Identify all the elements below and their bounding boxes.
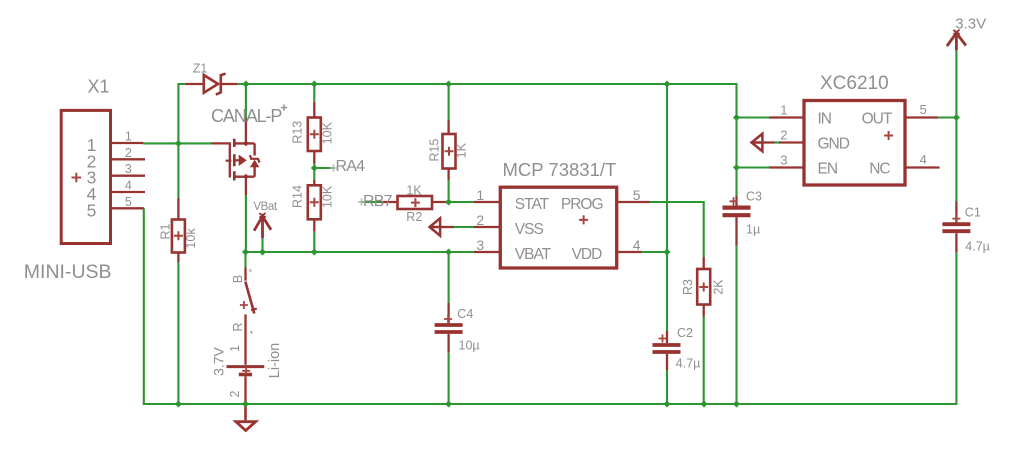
connector X1 pin stubs 1-5: [111, 143, 146, 208]
svg-text:RA4: RA4: [336, 158, 366, 175]
resistor R1 body: [172, 220, 185, 253]
transistor Q1 channel segments: [233, 139, 236, 181]
wire VBUS vertical from X1 pin1 junction up to Z1 anode: [178, 84, 185, 143]
U1 VSS input arrow: [430, 218, 441, 235]
junction VBAT rail at MOSFET/battery: [242, 248, 249, 255]
label CANAL-P plus mark: [281, 105, 287, 111]
switch S1 pin tick marks: [250, 269, 253, 333]
wire XC pin5 OUT to 3.3V column: [938, 116, 956, 118]
diode Z1 anode lead: [185, 83, 203, 85]
junction XC pin3 at C3 column: [733, 164, 740, 171]
transistor Q1 drain bar bottom: [234, 175, 254, 177]
resistor R3 body: [697, 269, 710, 305]
junction VBAT rail at C4: [445, 248, 452, 255]
svg-text:VBAT: VBAT: [515, 246, 552, 263]
svg-text:1K: 1K: [455, 142, 469, 158]
svg-text:10µ: 10µ: [459, 339, 480, 353]
junction VDD node at C2 column: [663, 248, 670, 255]
wire C4 bottom to GND rail: [448, 353, 450, 404]
transistor Q1 source bar top: [234, 142, 254, 144]
svg-text:1K: 1K: [406, 184, 422, 198]
svg-text:EN: EN: [818, 160, 838, 177]
resistor R3 plus mark: [699, 283, 708, 292]
wire R14 bottom stub: [313, 232, 315, 252]
node RB7 origin cross: [358, 199, 365, 206]
svg-text:OUT: OUT: [862, 110, 893, 127]
wire MOSFET bottom lead to VBAT rail: [245, 195, 247, 252]
U1 pin 5 PROG lead: [617, 201, 650, 203]
svg-text:MCP 73831/T: MCP 73831/T: [503, 159, 617, 180]
svg-text:R3: R3: [681, 279, 695, 295]
U2 plus mark: [884, 131, 893, 140]
transistor Q1 body diode zener bar: [250, 155, 260, 162]
svg-text:IN: IN: [818, 110, 832, 127]
junction top net at R15: [445, 80, 452, 87]
wire top net from Z1 cathode along top to right column: [237, 84, 736, 196]
wire R15 top lead from top net: [448, 84, 450, 120]
svg-text:2: 2: [125, 146, 132, 160]
resistor R1 leads: [177, 198, 179, 262]
battery G1 bottom lead: [244, 376, 246, 404]
wire XC pin2 GND arrow tick: [775, 141, 780, 143]
transistor Q1 body diode triangle: [251, 161, 259, 167]
svg-text:C4: C4: [457, 307, 473, 321]
svg-text:2: 2: [476, 212, 484, 228]
junction VBAT rail at VBat arrow: [259, 248, 266, 255]
svg-text:4: 4: [633, 237, 641, 253]
U2 GND input arrow: [752, 134, 763, 152]
svg-text:R: R: [231, 322, 245, 331]
wire VSS arrow to MCP pin2: [454, 226, 474, 228]
svg-text:3: 3: [780, 153, 787, 168]
battery G1 short plate: [239, 373, 252, 377]
wire C2 column from top net down to C2: [666, 84, 668, 331]
svg-text:C1: C1: [965, 206, 981, 220]
junction VBAT rail at R14: [311, 248, 318, 255]
wire C2 bottom to GND rail: [666, 370, 668, 404]
capacitor C2 leads: [666, 331, 668, 370]
junction top net at MOSFET: [242, 80, 249, 87]
svg-text:3.3V: 3.3V: [955, 15, 986, 32]
svg-text:R14: R14: [291, 185, 305, 208]
wire battery column top stub: [244, 252, 246, 268]
svg-text:MINI-USB: MINI-USB: [24, 261, 112, 283]
wire VBAT rail from MOSFET to MCP pin3: [246, 251, 475, 253]
junction XC pin1 at C3 column: [733, 114, 740, 121]
junction GND rail at battery: [242, 400, 249, 407]
U1 pin 3 VBAT lead: [474, 251, 500, 253]
U1 pin 1 STAT lead: [474, 201, 500, 203]
svg-text:XC6210: XC6210: [820, 73, 889, 94]
power VBat arrow: [254, 213, 271, 238]
junction GND rail at C2: [663, 400, 670, 407]
wire 3.3V column from arrow down to C1: [955, 50, 957, 201]
connector X1 polarity plus mark: [72, 173, 82, 183]
svg-text:1: 1: [780, 103, 787, 118]
svg-text:5: 5: [920, 102, 927, 117]
node RA4 origin cross: [330, 165, 337, 172]
capacitor C3 plus mark: [730, 197, 738, 205]
svg-text:R13: R13: [291, 121, 305, 144]
wire R15 bottom to STAT junction: [448, 180, 450, 202]
wire C4 top stub: [448, 252, 450, 303]
wire RB7 net to R2: [361, 201, 381, 203]
capacitor C2 plates: [653, 345, 681, 352]
switch S1 lever: [245, 282, 254, 314]
capacitor C1 plus mark: [952, 215, 960, 223]
svg-text:5: 5: [87, 200, 97, 220]
wire R3 bottom to GND rail: [703, 317, 705, 405]
svg-text:STAT: STAT: [515, 196, 550, 213]
U2 pin 2 GND lead: [762, 141, 803, 143]
svg-text:10K: 10K: [320, 121, 334, 144]
wire R13 bottom to RA4 junction: [313, 164, 315, 169]
svg-text:4.7µ: 4.7µ: [965, 240, 990, 254]
wire RA4 label stub: [314, 167, 333, 169]
switch S1 top contact wire: [244, 268, 246, 281]
resistor R13 plus mark: [310, 130, 319, 139]
capacitor C1 leads: [955, 202, 957, 253]
resistor R2 leads: [381, 201, 448, 203]
svg-text:NC: NC: [869, 160, 890, 177]
junction STAT node at R15/R2: [445, 198, 452, 205]
resistor R2 body: [398, 196, 433, 209]
capacitor C3 leads: [735, 196, 737, 246]
wire C3 bottom to GND rail: [735, 246, 737, 404]
svg-text:VSS: VSS: [515, 221, 544, 238]
U2 pin 4 NC lead: [906, 166, 940, 168]
connector X1 pin numbers outside: [125, 130, 132, 209]
svg-text:3: 3: [125, 162, 132, 176]
resistor R2 plus mark: [411, 198, 420, 207]
transistor Q1 bottom lead: [245, 177, 247, 195]
svg-text:VBat: VBat: [253, 201, 278, 213]
svg-text:3: 3: [476, 237, 484, 253]
wire PROG net from MCP pin5 to R3 top: [650, 202, 704, 257]
switch S1 plus mark: [240, 301, 248, 309]
svg-text:RB7: RB7: [363, 193, 393, 210]
svg-text:R1: R1: [158, 223, 172, 239]
U1 pin 2 lead inner: [474, 226, 500, 228]
diode Z1 cathode lead: [222, 83, 238, 85]
svg-text:2: 2: [228, 390, 242, 397]
svg-text:PROG: PROG: [561, 196, 603, 213]
junction X1 pin1 node: [175, 140, 182, 147]
svg-text:R15: R15: [428, 138, 442, 161]
capacitor C2 plus mark: [659, 335, 667, 343]
svg-text:Li-ion: Li-ion: [267, 343, 283, 378]
svg-text:R2: R2: [406, 210, 422, 224]
svg-text:X1: X1: [88, 77, 110, 97]
svg-text:1: 1: [125, 130, 132, 144]
capacitor C1 plates: [942, 224, 970, 231]
capacitor C4 plates: [435, 325, 463, 332]
resistor R1 plus mark: [174, 231, 183, 240]
junction top net at R13: [311, 80, 318, 87]
svg-text:10k: 10k: [184, 228, 198, 249]
wire RA4 junction to R14 top: [313, 168, 315, 180]
svg-text:GND: GND: [818, 135, 850, 152]
resistor R3 leads: [703, 257, 705, 317]
resistor R14 plus mark: [310, 198, 319, 207]
transistor Q1 top terminal dot: [243, 140, 249, 146]
U2 pin 3 EN lead: [769, 166, 803, 168]
wire VBat arrow stub: [261, 238, 263, 252]
transistor Q1 CANAL-P gate lead and gate bar: [211, 143, 230, 177]
svg-text:CANAL-P: CANAL-P: [211, 106, 282, 126]
diode Z1 zener cathode bar: [216, 74, 226, 95]
connector X1 MINI-USB body: [61, 110, 110, 243]
transistor Q1 bulk arrow: [234, 159, 239, 161]
svg-text:4: 4: [125, 179, 132, 193]
regulator U2 XC6210 body box: [804, 101, 905, 186]
wire R1 bottom to GND rail: [177, 262, 179, 404]
wire VDD stub from MCP pin4 to C2 column: [642, 251, 667, 253]
connector X1 pad names inside: [87, 135, 97, 220]
wire R2 right to STAT junction and MCP pin1: [447, 201, 474, 203]
svg-text:4.7µ: 4.7µ: [676, 356, 701, 370]
diode Z1 triangle: [204, 75, 218, 93]
op-amp U1 MCP73831 body box: [500, 187, 616, 268]
U1 plus mark: [579, 215, 588, 224]
junction 3.3V node at XC pin5: [953, 114, 960, 121]
resistor R15 plus mark: [445, 147, 454, 156]
svg-text:5: 5: [125, 195, 132, 209]
resistor R13 leads: [313, 102, 315, 164]
U1 pin 4 VDD lead: [617, 251, 642, 253]
svg-text:3.7V: 3.7V: [211, 346, 227, 375]
switch S1 bottom contact wire: [244, 314, 246, 364]
svg-text:B: B: [231, 275, 245, 283]
U2 pin 5 OUT lead: [906, 116, 939, 118]
wire XC pin3 EN stub: [737, 166, 770, 168]
wire XC pin1 stub: [737, 116, 770, 118]
svg-text:2K: 2K: [712, 279, 726, 295]
U1 pin 2 VSS lead: [440, 226, 454, 228]
junction GND rail at R1: [175, 400, 182, 407]
resistor R13 body: [308, 118, 321, 152]
wire R13 top lead from top net: [313, 84, 315, 102]
capacitor C3 plates: [723, 208, 751, 216]
wire GND bottom rail from X1 pin5 down, across, and up right side: [144, 208, 957, 404]
capacitor C4 leads: [447, 303, 449, 353]
capacitor C4 plus mark: [444, 315, 452, 323]
resistor R14 leads: [313, 180, 315, 232]
resistor R15 body: [443, 134, 456, 169]
resistor R15 leads: [447, 120, 449, 180]
wire X1 pin1 to junction: [143, 142, 178, 144]
power 3.3V arrow: [947, 30, 966, 51]
transistor Q1 bottom terminal dot: [243, 174, 249, 180]
svg-text:C2: C2: [677, 326, 693, 340]
svg-text:10K: 10K: [320, 185, 334, 208]
svg-text:1: 1: [228, 345, 242, 352]
svg-text:4: 4: [920, 152, 927, 167]
wire gate net toward MOSFET: [178, 142, 211, 144]
junction GND rail at C3: [733, 400, 740, 407]
wire junction down to R1 top: [177, 143, 179, 198]
ground symbol GND: [236, 404, 256, 431]
transistor Q1 body diode line: [253, 143, 255, 176]
svg-text:VDD: VDD: [572, 246, 603, 263]
resistor R14 body: [308, 185, 321, 219]
svg-text:C3: C3: [746, 190, 762, 204]
svg-text:Z1: Z1: [193, 61, 208, 75]
svg-text:1µ: 1µ: [746, 223, 760, 237]
switch S1 lever end tick: [251, 309, 257, 311]
junction GND rail at C4: [445, 400, 452, 407]
junction GND rail at R3: [700, 400, 707, 407]
svg-text:2: 2: [780, 128, 787, 143]
transistor Q1 top lead: [245, 118, 247, 143]
svg-text:5: 5: [633, 187, 641, 203]
wire MOSFET top lead to top net: [245, 84, 247, 118]
battery G1 long plate: [227, 365, 265, 368]
svg-text:1: 1: [476, 187, 484, 203]
junction RA4 node: [311, 164, 318, 171]
U2 pin 1 IN lead: [769, 116, 803, 118]
battery G1 plus mark: [242, 367, 250, 375]
junction top net at C2 column: [663, 80, 670, 87]
transistor Q1 gate tick: [226, 160, 232, 162]
